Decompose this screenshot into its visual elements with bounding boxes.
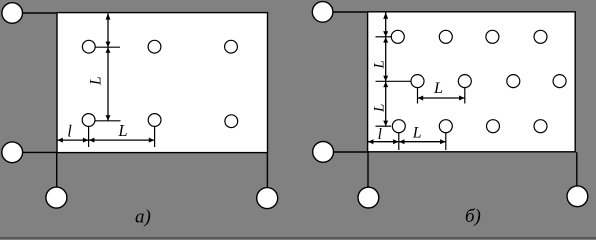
- electrode E2 (mid-left): [2, 142, 23, 163]
- extension tick below hole A21: [88, 127, 90, 147]
- horizontal dimension L (a): [89, 138, 154, 143]
- extension tick at hole A11 row: [95, 46, 120, 48]
- hole B31: [392, 120, 405, 133]
- extension tick at hole B31: [376, 125, 392, 127]
- horizontal dimension L (b bottom): [399, 139, 445, 144]
- svg-text:l: l: [67, 122, 72, 141]
- extension tick below hole B22: [464, 88, 466, 104]
- vertical dimension line (b) segment 3, length L: [383, 82, 388, 126]
- hole B12: [439, 30, 452, 43]
- hole B13: [486, 30, 499, 43]
- wire from electrode E5 to plate B top edge: [331, 11, 368, 13]
- hole B34: [534, 120, 547, 133]
- extension tick below hole B32: [445, 133, 447, 150]
- hole B23: [507, 75, 520, 88]
- electrode E1 (top-left): [2, 3, 23, 24]
- hole A12: [148, 40, 161, 53]
- svg-text:L: L: [433, 79, 443, 97]
- wire from electrode E2 to plate A bottom edge: [21, 151, 57, 153]
- electrode E6 (mid-left): [313, 142, 334, 163]
- hole B33: [487, 120, 500, 133]
- electrode E3 (bottom-left): [46, 187, 67, 208]
- plate contour B: [368, 12, 576, 152]
- hole A23: [225, 115, 238, 128]
- extension tick at hole B21: [376, 80, 411, 82]
- hole A13: [225, 40, 238, 53]
- extension tick at hole B11: [376, 36, 392, 38]
- electrode E5 (top-left): [312, 2, 333, 23]
- electrode E4 (bottom-right): [257, 188, 278, 209]
- svg-text:L: L: [372, 60, 388, 69]
- wire from electrode E6 to plate B bottom edge: [331, 151, 368, 153]
- svg-text:L: L: [372, 104, 388, 113]
- svg-text:L: L: [117, 121, 127, 140]
- wire from plate A bottom-left corner down to electrode E3: [56, 153, 58, 188]
- horizontal dimension l (b): [368, 139, 399, 144]
- vertical dimension line (b) segment 2, length L: [383, 37, 388, 81]
- hole B21: [411, 75, 424, 88]
- hole B22: [458, 75, 471, 88]
- electrode E7 (bottom-left): [358, 187, 379, 208]
- wire from plate B bottom-left corner down to electrode E7: [367, 152, 369, 188]
- horizontal dimension l (a): [57, 138, 88, 143]
- extension tick at hole A21 row: [95, 120, 120, 122]
- svg-text:а): а): [135, 207, 151, 228]
- wire from electrode E1 to plate A top edge: [21, 12, 57, 14]
- svg-text:l: l: [378, 126, 382, 143]
- extension tick below hole B31: [398, 133, 400, 150]
- wire from plate B bottom-right corner down to electrode E8: [576, 152, 578, 187]
- bottom shadow edge: [0, 237, 596, 239]
- wire from plate A bottom-right corner down to electrode E4: [266, 153, 268, 188]
- hole B14: [534, 30, 547, 43]
- hole B11: [391, 30, 404, 43]
- svg-text:L: L: [412, 125, 422, 142]
- electrode E8 (bottom-right): [567, 186, 588, 207]
- extension tick below hole B21: [417, 88, 419, 104]
- horizontal dimension L (b middle row): [418, 96, 465, 101]
- hole A22: [148, 114, 161, 127]
- vertical dimension line (a) lower segment, length L: [106, 47, 111, 120]
- hole A21: [82, 114, 95, 127]
- plate contour A: [57, 13, 268, 153]
- hole B24: [553, 75, 566, 88]
- hole A11: [82, 40, 95, 53]
- svg-text:L: L: [88, 76, 105, 86]
- extension tick below hole A22: [154, 127, 156, 147]
- vertical dimension line (b) segment 1: [383, 12, 388, 36]
- vertical dimension line (a) upper segment: [106, 13, 111, 47]
- hole B32: [439, 120, 452, 133]
- svg-text:б): б): [465, 206, 481, 227]
